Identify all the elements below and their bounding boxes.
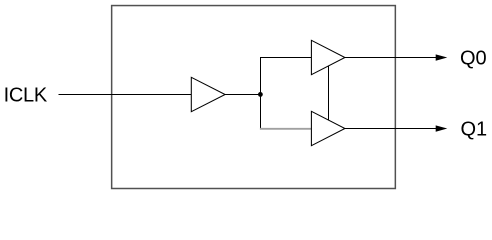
wire bottom branch to buffer 3 bbox=[260, 128, 312, 130]
wire Q0 output bbox=[345, 57, 437, 59]
wire Q1 output bbox=[345, 128, 437, 130]
wire top branch to buffer 2 bbox=[261, 57, 312, 59]
svg-text:ICLK: ICLK bbox=[4, 85, 48, 107]
device boundary box bbox=[112, 6, 396, 189]
buffer 1 input stage bbox=[191, 77, 225, 111]
wire buffer 1 output to junction bbox=[225, 94, 260, 96]
wire ICLK input bbox=[59, 94, 192, 96]
svg-text:Q1: Q1 bbox=[461, 119, 488, 141]
arrowhead Q1 bbox=[436, 125, 448, 131]
buffer 3 Q1 output stage bbox=[311, 111, 345, 145]
wire buffer2-buffer3 connector bbox=[328, 66, 330, 120]
arrowhead Q0 bbox=[436, 54, 448, 60]
junction node bbox=[258, 92, 263, 97]
buffer 2 Q0 output stage bbox=[311, 40, 345, 74]
svg-text:Q0: Q0 bbox=[460, 48, 487, 70]
wire vertical branch bbox=[260, 57, 262, 129]
